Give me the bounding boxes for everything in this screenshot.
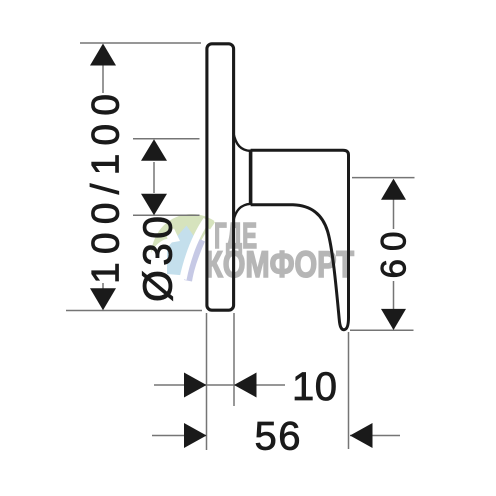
dim 100/100 bottom extension line — [66, 310, 202, 312]
dim 100/100 line upper stem — [102, 45, 104, 93]
dim 10 right-pointing arrow — [184, 373, 207, 398]
dim 100/100 line lower stem — [102, 283, 104, 308]
boss top fillet — [233, 133, 250, 151]
dim 60 lower stem — [393, 281, 395, 329]
boss neck — [249, 150, 253, 206]
dim 10 line — [154, 384, 285, 386]
dim D30 stem — [153, 162, 155, 193]
dim 60 down arrow — [381, 309, 406, 330]
svg-text:10: 10 — [292, 365, 337, 409]
dim 100/100 down arrow — [90, 288, 116, 310]
svg-text:60: 60 — [375, 232, 414, 279]
watermark logo white notch — [166, 229, 180, 244]
watermark logo white slash — [180, 218, 210, 280]
dim 60 up arrow — [381, 179, 406, 200]
dim 100/100 top extension line — [80, 42, 201, 44]
dim D30 top extension line — [133, 138, 200, 140]
dim 60 bottom extension line — [350, 329, 414, 331]
extension line plate right below — [233, 313, 235, 406]
escutcheon plate profile — [207, 44, 234, 310]
dim 56 right tail — [350, 435, 400, 437]
watermark logo green sliver — [206, 220, 216, 230]
watermark logo blue mountain — [167, 226, 199, 277]
dim D30 down arrow — [141, 194, 167, 216]
handle lever outline — [251, 150, 349, 330]
watermark logo lavender band — [184, 238, 205, 282]
dim 56 left tail — [152, 435, 207, 437]
dim 56 right-pointing arrow — [184, 423, 207, 448]
svg-text:100/100: 100/100 — [85, 94, 128, 284]
extension line handle right below — [348, 332, 350, 449]
dim 10 left-pointing arrow — [234, 373, 257, 398]
dim 56 left-pointing arrow — [350, 423, 373, 448]
dim 100/100 up arrow — [90, 44, 116, 66]
dim D30 up arrow — [141, 139, 167, 161]
watermark logo green leaf — [151, 214, 215, 268]
svg-text:56: 56 — [255, 415, 301, 459]
dim 60 upper stem — [393, 180, 395, 229]
extension line plate left below — [206, 313, 208, 450]
svg-text:Ø30: Ø30 — [135, 216, 181, 302]
dim D30 bottom extension line — [133, 214, 200, 216]
boss bottom fillet — [233, 204, 250, 221]
dim 60 top extension line — [352, 177, 415, 179]
